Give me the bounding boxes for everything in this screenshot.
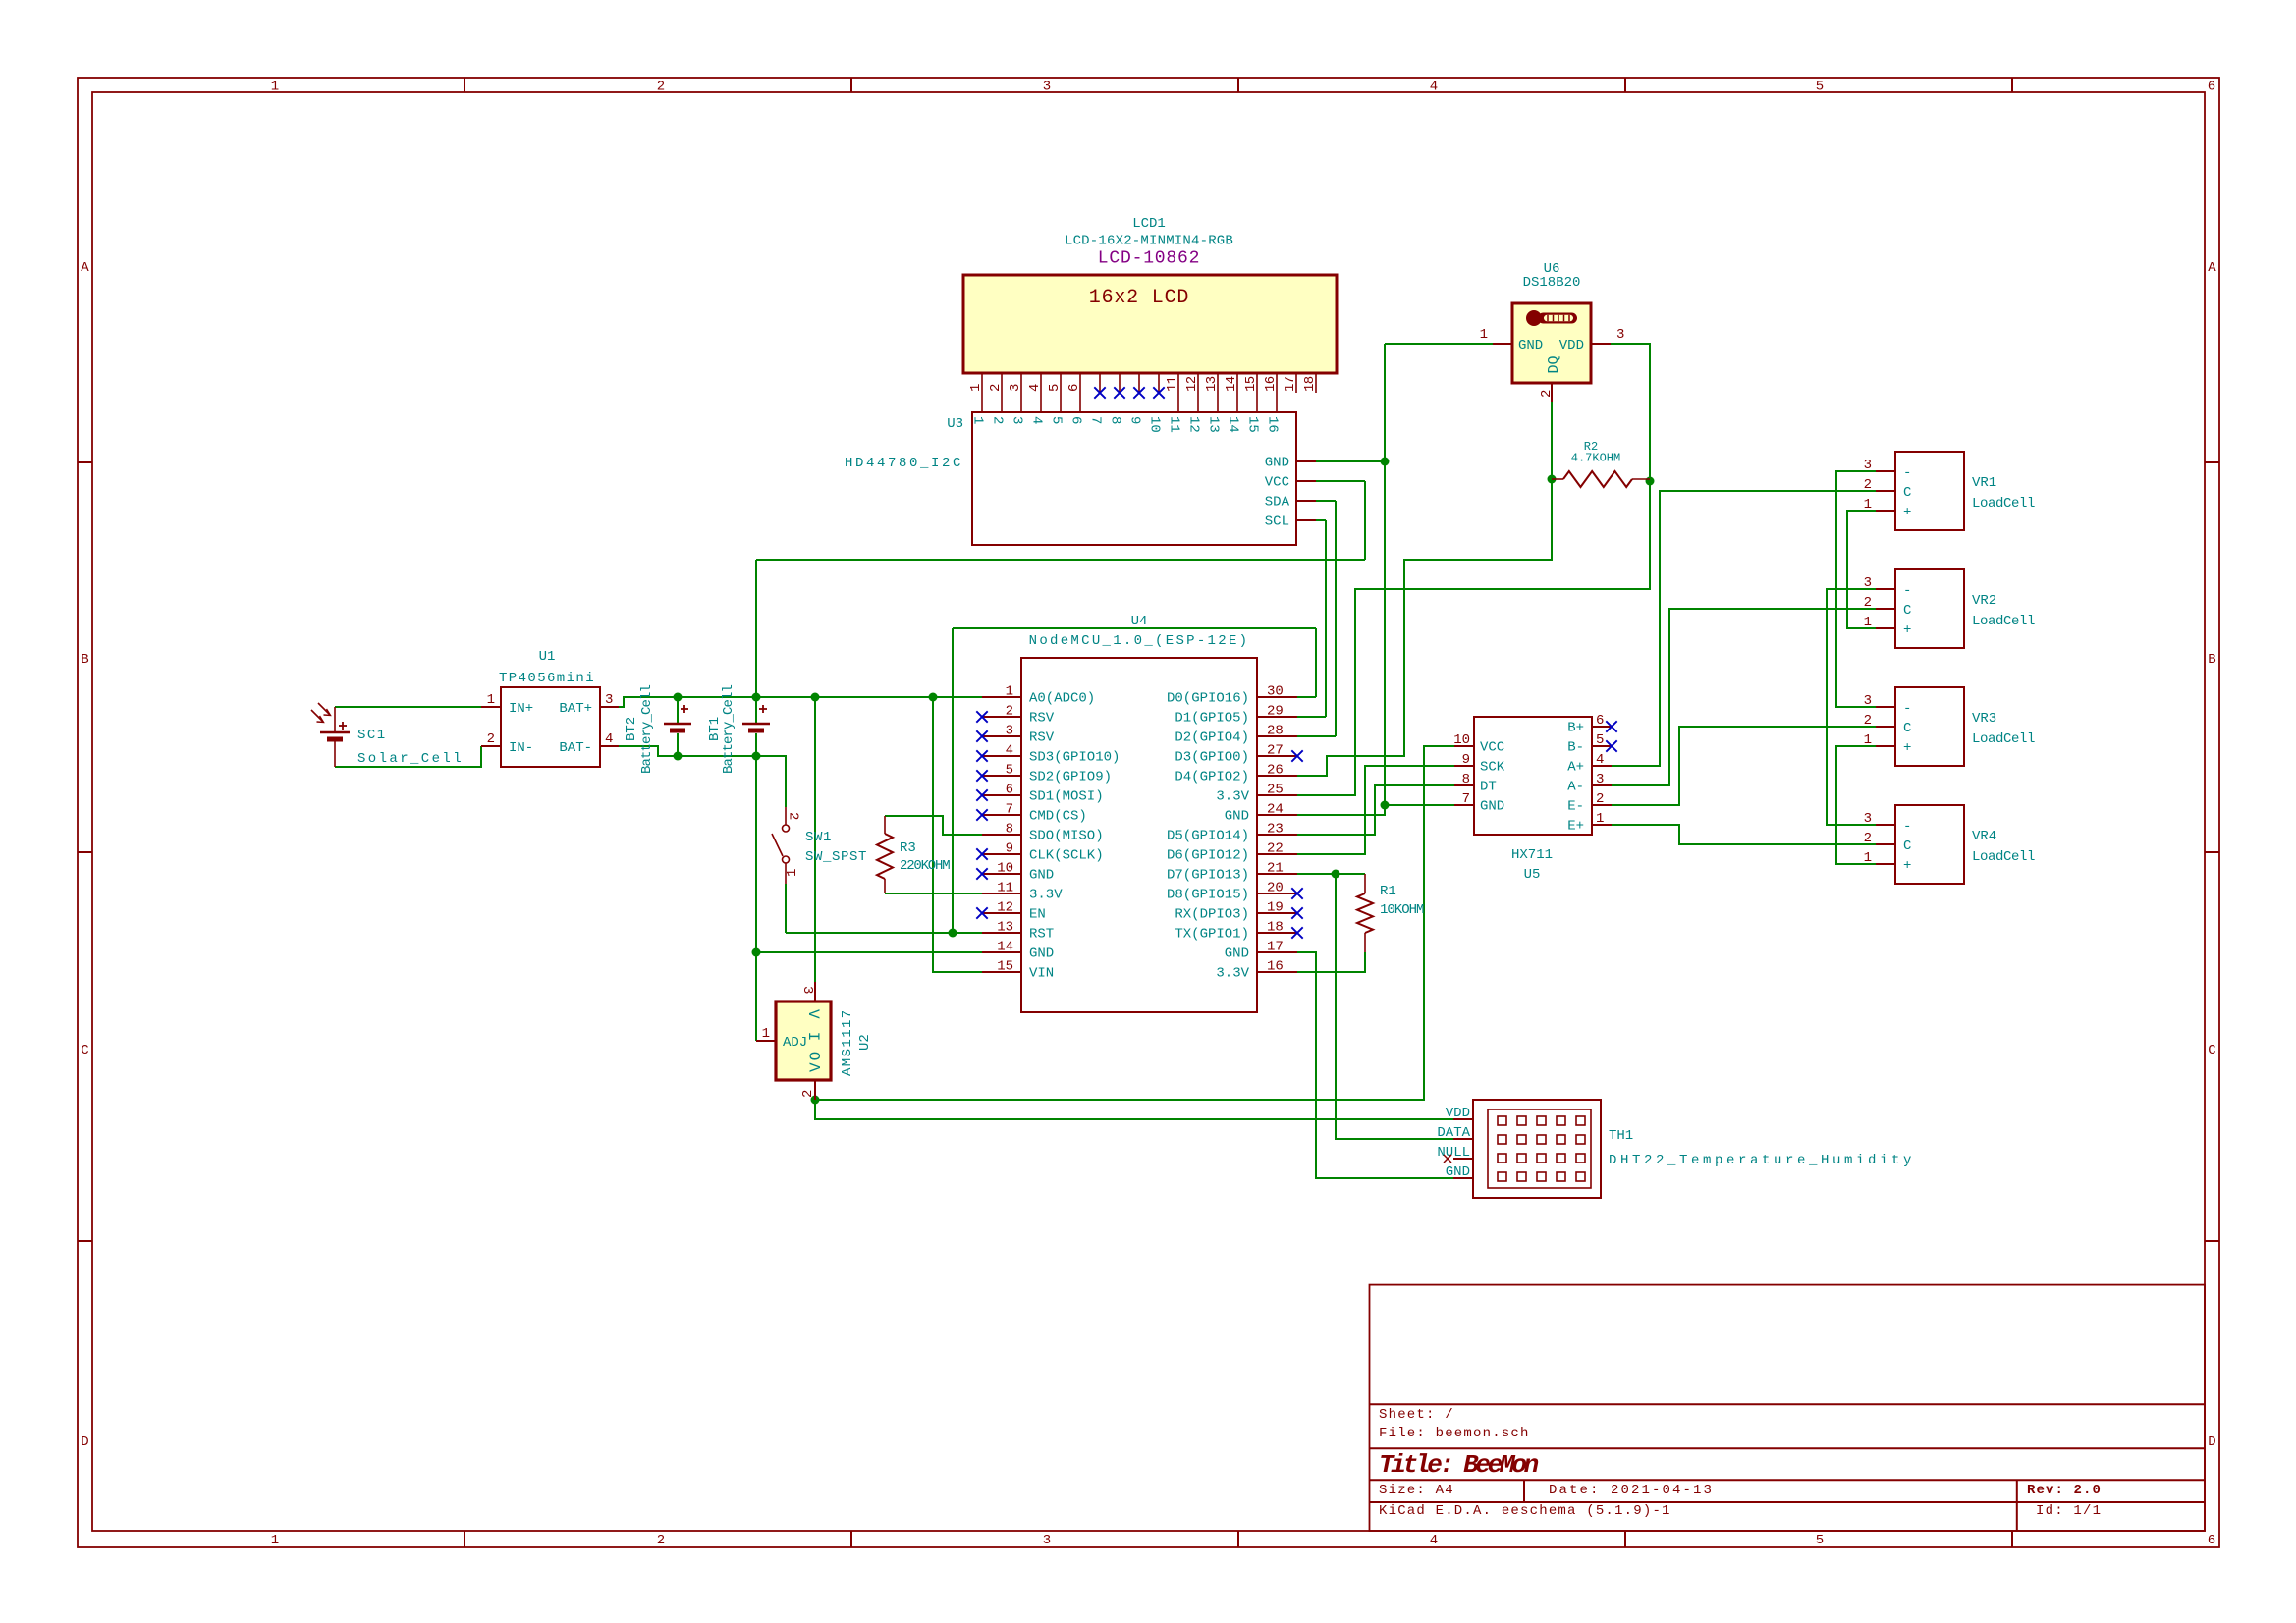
svg-text:3.3V: 3.3V (1029, 888, 1063, 903)
svg-text:-: - (1903, 701, 1911, 717)
svg-text:Id: 1/1: Id: 1/1 (2036, 1503, 2102, 1519)
svg-text:26: 26 (1267, 763, 1284, 779)
svg-text:9: 9 (1462, 752, 1470, 768)
svg-text:U4: U4 (1131, 614, 1148, 629)
svg-text:2: 2 (1864, 477, 1872, 493)
svg-text:13: 13 (997, 920, 1013, 936)
svg-text:+: + (1903, 740, 1911, 756)
svg-text:A: A (2208, 260, 2216, 276)
svg-text:4.7KOHM: 4.7KOHM (1571, 452, 1620, 465)
svg-text:GND: GND (1029, 868, 1054, 884)
svg-text:B-: B- (1567, 740, 1584, 756)
svg-text:6: 6 (1066, 384, 1082, 392)
svg-text:GND: GND (1265, 456, 1289, 471)
svg-text:Battery_Cell: Battery_Cell (721, 684, 737, 774)
svg-text:12: 12 (1186, 416, 1202, 433)
svg-text:11: 11 (1165, 376, 1180, 392)
svg-text:E-: E- (1567, 799, 1584, 815)
svg-text:5: 5 (1596, 732, 1604, 748)
svg-text:NodeMCU_1.0_(ESP-12E): NodeMCU_1.0_(ESP-12E) (1029, 633, 1250, 649)
svg-text:B: B (81, 652, 88, 668)
svg-text:9: 9 (1127, 416, 1143, 424)
svg-text:HX711: HX711 (1511, 847, 1553, 863)
svg-text:3.3V: 3.3V (1216, 966, 1249, 982)
svg-text:2: 2 (1539, 390, 1555, 398)
svg-text:AMS1117: AMS1117 (840, 1008, 855, 1076)
svg-text:C: C (1903, 721, 1911, 736)
svg-text:D4(GPIO2): D4(GPIO2) (1175, 770, 1249, 785)
svg-text:D8(GPIO15): D8(GPIO15) (1167, 888, 1249, 903)
svg-text:LCD-10862: LCD-10862 (1098, 249, 1200, 269)
svg-text:Title: BeeMon: Title: BeeMon (1379, 1450, 1539, 1480)
svg-text:29: 29 (1267, 704, 1284, 720)
svg-text:D3(GPIO0): D3(GPIO0) (1175, 750, 1249, 766)
svg-text:DT: DT (1480, 780, 1497, 795)
svg-text:7: 7 (1088, 416, 1104, 424)
svg-text:Size: A4: Size: A4 (1379, 1483, 1454, 1498)
svg-text:Date: 2021-04-13: Date: 2021-04-13 (1549, 1483, 1714, 1498)
svg-text:5: 5 (1049, 416, 1065, 424)
svg-text:IN-: IN- (509, 740, 533, 756)
svg-text:4: 4 (1027, 384, 1043, 392)
svg-text:VR1: VR1 (1972, 475, 1996, 491)
svg-text:4: 4 (605, 731, 613, 747)
svg-text:TP4056mini: TP4056mini (499, 671, 595, 686)
svg-text:2: 2 (990, 416, 1006, 424)
svg-text:U5: U5 (1524, 867, 1541, 883)
svg-text:R1: R1 (1380, 884, 1396, 899)
svg-text:E+: E+ (1567, 819, 1584, 835)
svg-text:3: 3 (1864, 458, 1872, 473)
svg-text:2: 2 (487, 731, 495, 747)
svg-text:2: 2 (1864, 595, 1872, 611)
svg-text:D1(GPIO5): D1(GPIO5) (1175, 711, 1249, 727)
svg-text:18: 18 (1302, 376, 1318, 392)
svg-text:RX(DPIO3): RX(DPIO3) (1175, 907, 1249, 923)
svg-text:VR4: VR4 (1972, 829, 1996, 844)
svg-text:23: 23 (1267, 822, 1284, 838)
svg-text:21: 21 (1267, 861, 1284, 877)
svg-text:1: 1 (968, 384, 984, 392)
svg-text:D: D (2208, 1434, 2215, 1450)
svg-text:14: 14 (1226, 416, 1241, 433)
svg-text:1: 1 (487, 692, 495, 708)
svg-text:3: 3 (1864, 693, 1872, 709)
svg-text:SDA: SDA (1265, 495, 1290, 511)
svg-text:KiCad E.D.A. eeschema (5.1.9): KiCad E.D.A. eeschema (5.1.9)-1 (1379, 1503, 1671, 1519)
svg-text:C: C (81, 1043, 88, 1058)
svg-text:6: 6 (1068, 416, 1084, 424)
svg-text:U1: U1 (539, 649, 556, 665)
svg-text:DQ: DQ (1546, 355, 1562, 373)
svg-text:LoadCell: LoadCell (1972, 731, 2035, 747)
svg-text:3: 3 (1864, 575, 1872, 591)
svg-text:C: C (2208, 1043, 2215, 1058)
svg-text:C: C (1903, 839, 1911, 854)
svg-text:LCD-16X2-MINMIN4-RGB: LCD-16X2-MINMIN4-RGB (1065, 234, 1233, 249)
svg-text:30: 30 (1267, 684, 1284, 700)
svg-text:GND: GND (1518, 338, 1543, 353)
svg-text:16: 16 (1263, 376, 1279, 392)
svg-text:DATA: DATA (1437, 1125, 1470, 1141)
svg-text:Battery_Cell: Battery_Cell (639, 684, 655, 774)
svg-text:A+: A+ (1567, 760, 1584, 776)
svg-text:2: 2 (786, 812, 801, 820)
svg-text:B: B (2208, 652, 2215, 668)
svg-text:24: 24 (1267, 802, 1284, 818)
svg-text:3: 3 (799, 986, 815, 994)
svg-text:6: 6 (2208, 80, 2215, 95)
svg-text:+: + (1903, 505, 1911, 520)
svg-text:D6(GPIO12): D6(GPIO12) (1167, 848, 1249, 864)
svg-text:16x2 LCD: 16x2 LCD (1089, 287, 1189, 309)
svg-text:3: 3 (1043, 1533, 1051, 1548)
svg-text:19: 19 (1267, 900, 1284, 916)
svg-text:SD1(MOSI): SD1(MOSI) (1029, 789, 1104, 805)
svg-text:ADJ: ADJ (783, 1035, 807, 1051)
svg-text:3: 3 (1596, 772, 1604, 787)
svg-text:5: 5 (1816, 80, 1824, 95)
svg-text:10KOHM: 10KOHM (1380, 902, 1424, 918)
svg-text:1: 1 (1006, 684, 1013, 700)
svg-text:U3: U3 (947, 416, 963, 432)
svg-text:17: 17 (1267, 940, 1284, 955)
svg-text:3: 3 (1864, 811, 1872, 827)
svg-text:SW1: SW1 (805, 830, 832, 845)
svg-text:Sheet: /: Sheet: / (1379, 1407, 1454, 1423)
svg-text:RSV: RSV (1029, 711, 1055, 727)
svg-text:8: 8 (1462, 772, 1470, 787)
svg-text:1: 1 (1480, 327, 1488, 343)
svg-text:SD2(GPIO9): SD2(GPIO9) (1029, 770, 1112, 785)
svg-text:6: 6 (1006, 783, 1013, 798)
svg-text:GND: GND (1225, 947, 1249, 962)
svg-text:DHT22_Temperature_Humidity: DHT22_Temperature_Humidity (1609, 1153, 1915, 1168)
svg-text:CMD(CS): CMD(CS) (1029, 809, 1087, 825)
svg-text:3: 3 (1010, 416, 1025, 424)
svg-text:4: 4 (1029, 416, 1045, 424)
svg-text:14: 14 (1224, 376, 1239, 392)
svg-text:2: 2 (988, 384, 1004, 392)
svg-text:File: beemon.sch: File: beemon.sch (1379, 1426, 1530, 1441)
svg-text:3: 3 (1008, 384, 1023, 392)
svg-text:HD44780_I2C: HD44780_I2C (845, 456, 963, 471)
svg-text:+: + (1903, 622, 1911, 638)
svg-text:5: 5 (1816, 1533, 1824, 1548)
svg-text:VR2: VR2 (1972, 593, 1996, 609)
svg-text:13: 13 (1204, 376, 1220, 392)
svg-text:15: 15 (997, 959, 1013, 975)
svg-text:7: 7 (1462, 791, 1470, 807)
svg-text:3.3V: 3.3V (1216, 789, 1249, 805)
svg-text:VO: VO (807, 1050, 825, 1072)
svg-text:10: 10 (1453, 732, 1470, 748)
svg-text:A0(ADC0): A0(ADC0) (1029, 691, 1095, 707)
svg-text:5: 5 (1047, 384, 1063, 392)
svg-text:12: 12 (997, 900, 1013, 916)
svg-text:BAT+: BAT+ (559, 701, 592, 717)
svg-text:GND: GND (1029, 947, 1054, 962)
svg-text:6: 6 (2208, 1533, 2215, 1548)
svg-text:1: 1 (1864, 497, 1872, 513)
svg-text:C: C (1903, 603, 1911, 619)
svg-text:27: 27 (1267, 743, 1284, 759)
svg-text:D5(GPIO14): D5(GPIO14) (1167, 829, 1249, 844)
svg-text:GND: GND (1480, 799, 1504, 815)
svg-text:8: 8 (1108, 416, 1123, 424)
svg-text:7: 7 (1006, 802, 1013, 818)
svg-text:2: 2 (1864, 713, 1872, 729)
svg-text:LoadCell: LoadCell (1972, 614, 2035, 629)
svg-text:17: 17 (1283, 376, 1298, 392)
svg-text:TX(GPIO1): TX(GPIO1) (1175, 927, 1249, 943)
svg-text:D7(GPIO13): D7(GPIO13) (1167, 868, 1249, 884)
svg-text:Rev: 2.0: Rev: 2.0 (2027, 1483, 2102, 1498)
svg-text:12: 12 (1184, 376, 1200, 392)
svg-text:IN+: IN+ (509, 701, 533, 717)
svg-text:3: 3 (1043, 80, 1051, 95)
svg-text:VIN: VIN (1029, 966, 1054, 982)
svg-text:10: 10 (997, 861, 1013, 877)
svg-text:VDD: VDD (1559, 338, 1584, 353)
svg-text:SC1: SC1 (357, 728, 387, 743)
svg-text:1: 1 (785, 869, 800, 877)
svg-text:3: 3 (1006, 724, 1013, 739)
svg-text:25: 25 (1267, 783, 1284, 798)
svg-text:LoadCell: LoadCell (1972, 496, 2035, 512)
svg-text:DS18B20: DS18B20 (1523, 275, 1581, 291)
svg-text:2: 2 (1006, 704, 1013, 720)
svg-text:RST: RST (1029, 927, 1054, 943)
svg-text:28: 28 (1267, 724, 1284, 739)
svg-text:1: 1 (271, 1533, 279, 1548)
svg-text:LoadCell: LoadCell (1972, 849, 2035, 865)
svg-text:A-: A- (1567, 780, 1584, 795)
svg-text:4: 4 (1006, 743, 1013, 759)
svg-text:EN: EN (1029, 907, 1046, 923)
svg-text:22: 22 (1267, 841, 1284, 857)
svg-text:D0(GPIO16): D0(GPIO16) (1167, 691, 1249, 707)
svg-text:BT2: BT2 (624, 717, 639, 741)
svg-text:D2(GPIO4): D2(GPIO4) (1175, 730, 1249, 746)
svg-text:-: - (1903, 465, 1911, 481)
svg-text:Solar_Cell: Solar_Cell (357, 751, 464, 767)
svg-text:VCC: VCC (1265, 475, 1289, 491)
svg-text:15: 15 (1243, 376, 1259, 392)
svg-text:2: 2 (657, 1533, 665, 1548)
svg-text:1: 1 (1864, 615, 1872, 630)
svg-text:A: A (81, 260, 89, 276)
svg-text:6: 6 (1596, 713, 1604, 729)
svg-text:1: 1 (1596, 811, 1604, 827)
svg-text:15: 15 (1245, 416, 1261, 433)
svg-text:D: D (81, 1434, 88, 1450)
svg-text:GND: GND (1446, 1164, 1470, 1180)
svg-text:SCL: SCL (1265, 514, 1289, 530)
svg-text:3: 3 (605, 692, 613, 708)
svg-text:1: 1 (271, 80, 279, 95)
svg-text:20: 20 (1267, 881, 1284, 896)
svg-text:BAT-: BAT- (559, 740, 592, 756)
svg-text:B+: B+ (1567, 721, 1584, 736)
svg-text:TH1: TH1 (1609, 1128, 1633, 1144)
svg-text:16: 16 (1267, 959, 1284, 975)
svg-text:2: 2 (800, 1090, 816, 1098)
svg-text:-: - (1903, 583, 1911, 599)
svg-text:-: - (1903, 819, 1911, 835)
svg-text:R3: R3 (900, 840, 916, 856)
svg-text:5: 5 (1006, 763, 1013, 779)
svg-text:NULL: NULL (1437, 1145, 1470, 1161)
svg-text:4: 4 (1430, 80, 1438, 95)
svg-text:SDO(MISO): SDO(MISO) (1029, 829, 1104, 844)
svg-text:C: C (1903, 485, 1911, 501)
svg-text:4: 4 (1430, 1533, 1438, 1548)
svg-text:GND: GND (1225, 809, 1249, 825)
svg-text:10: 10 (1147, 416, 1163, 433)
svg-text:1: 1 (762, 1026, 770, 1042)
svg-text:RSV: RSV (1029, 730, 1055, 746)
svg-text:VDD: VDD (1446, 1106, 1470, 1121)
svg-text:+: + (1903, 858, 1911, 874)
svg-text:13: 13 (1206, 416, 1222, 433)
svg-text:14: 14 (997, 940, 1013, 955)
svg-text:1: 1 (1864, 850, 1872, 866)
svg-text:11: 11 (1167, 416, 1182, 433)
svg-text:11: 11 (997, 881, 1013, 896)
svg-text:9: 9 (1006, 841, 1013, 857)
svg-text:220KOHM: 220KOHM (900, 858, 950, 874)
svg-text:SW_SPST: SW_SPST (805, 849, 867, 865)
svg-text:2: 2 (1864, 831, 1872, 846)
svg-text:SCK: SCK (1480, 760, 1505, 776)
svg-text:SD3(GPIO10): SD3(GPIO10) (1029, 750, 1120, 766)
svg-text:VCC: VCC (1480, 740, 1504, 756)
svg-text:2: 2 (1596, 791, 1604, 807)
svg-text:18: 18 (1267, 920, 1284, 936)
svg-text:1: 1 (1864, 732, 1872, 748)
svg-text:16: 16 (1265, 416, 1281, 433)
svg-text:VR3: VR3 (1972, 711, 1996, 727)
svg-text:2: 2 (657, 80, 665, 95)
svg-text:1: 1 (970, 416, 986, 424)
svg-text:U2: U2 (857, 1034, 873, 1051)
svg-text:CLK(SCLK): CLK(SCLK) (1029, 848, 1104, 864)
svg-text:LCD1: LCD1 (1132, 216, 1166, 232)
svg-text:3: 3 (1616, 327, 1624, 343)
svg-text:4: 4 (1596, 752, 1604, 768)
svg-text:8: 8 (1006, 822, 1013, 838)
